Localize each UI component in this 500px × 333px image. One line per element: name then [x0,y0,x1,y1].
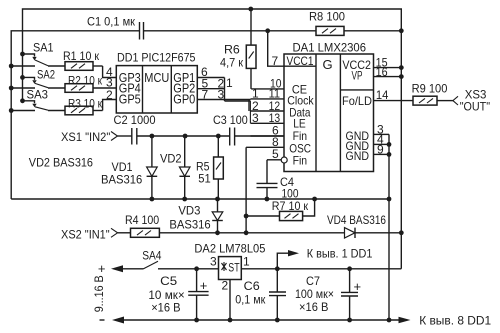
svg-text:+: + [200,278,208,293]
svg-text:DA1 LMX2306: DA1 LMX2306 [293,41,367,55]
svg-text:VD2 BAS316: VD2 BAS316 [29,155,93,169]
svg-text:×16 В: ×16 В [151,300,180,314]
svg-text:К выв. 1 DD1: К выв. 1 DD1 [307,247,373,261]
svg-text:C3 100: C3 100 [213,113,248,127]
svg-text:14: 14 [376,88,389,102]
svg-text:3: 3 [210,255,217,269]
svg-text:VCC1: VCC1 [287,54,314,68]
svg-text:Fo/LD: Fo/LD [342,94,372,108]
svg-text:R8 100: R8 100 [309,10,345,24]
svg-text:4,7 к: 4,7 к [220,56,244,70]
svg-text:16: 16 [376,65,388,79]
svg-text:R6: R6 [224,43,240,57]
svg-text:R2 10 к: R2 10 к [68,73,103,87]
svg-text:VP: VP [352,68,363,82]
svg-text:+: + [98,261,106,276]
svg-text:SA4: SA4 [142,249,162,263]
svg-text:VD2: VD2 [160,151,182,165]
svg-text:3: 3 [218,88,225,102]
svg-text:R4 100: R4 100 [125,213,159,227]
svg-text:DD1 PIC12F675: DD1 PIC12F675 [117,51,196,65]
svg-text:0,1 мк: 0,1 мк [235,292,266,306]
svg-text:GP0: GP0 [173,92,195,107]
svg-text:C5: C5 [160,274,177,288]
svg-text:GP5: GP5 [119,92,141,107]
svg-text:VD3: VD3 [178,203,200,217]
svg-text:1: 1 [226,76,233,90]
svg-text:+: + [354,279,362,294]
svg-text:"OUT": "OUT" [460,99,490,113]
svg-text:R9 100: R9 100 [412,81,448,95]
svg-text:GND: GND [346,149,370,163]
svg-text:XS2 "IN1": XS2 "IN1" [61,227,110,241]
svg-text:C2 1000: C2 1000 [114,113,156,127]
svg-text:9...16 В: 9...16 В [92,275,106,312]
svg-text:SA2: SA2 [37,67,55,81]
svg-text:R1 10 к: R1 10 к [63,49,100,63]
svg-text:DA2 LM78L05: DA2 LM78L05 [194,242,265,256]
svg-text:C6: C6 [244,279,260,293]
svg-text:7: 7 [272,54,279,68]
svg-text:SA3: SA3 [27,87,49,101]
svg-text:9: 9 [377,142,384,156]
svg-text:5: 5 [272,147,279,161]
svg-text:100 мк×: 100 мк× [295,287,334,301]
svg-text:К выв. 8 DD1: К выв. 8 DD1 [419,314,491,328]
svg-text:×16 В: ×16 В [299,300,328,314]
svg-text:7: 7 [202,88,209,102]
svg-text:BAS316: BAS316 [169,218,211,232]
svg-text:Fin: Fin [293,153,308,167]
svg-text:MCU: MCU [144,70,169,85]
svg-text:G: G [323,57,333,72]
svg-text:C7: C7 [306,274,320,288]
svg-text:ST: ST [228,261,240,275]
svg-text:2: 2 [222,279,229,293]
svg-text:R3 10 к: R3 10 к [68,96,103,110]
svg-text:2: 2 [106,88,113,102]
svg-text:C1 0,1 мк: C1 0,1 мк [87,15,136,29]
svg-text:1: 1 [243,255,250,269]
svg-text:SA1: SA1 [33,41,54,55]
svg-text:XS1 "IN2": XS1 "IN2" [61,130,110,144]
svg-text:VD4 BAS316: VD4 BAS316 [327,213,386,227]
svg-text:BAS316: BAS316 [101,173,143,187]
svg-text:51: 51 [198,171,211,185]
